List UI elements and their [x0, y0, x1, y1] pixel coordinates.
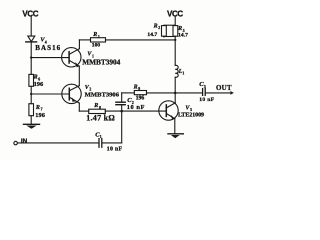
svg-text:VCC: VCC: [167, 9, 183, 18]
svg-text:VCC: VCC: [22, 9, 38, 18]
svg-text:10 nF: 10 nF: [107, 146, 123, 152]
svg-text:2: 2: [158, 26, 160, 30]
svg-text:8: 8: [99, 106, 101, 110]
svg-text:10 nF: 10 nF: [199, 97, 214, 103]
svg-text:IN: IN: [21, 138, 28, 145]
svg-text:1.47 kΩ: 1.47 kΩ: [86, 113, 115, 122]
svg-text:R: R: [92, 32, 97, 38]
svg-text:196: 196: [136, 95, 145, 101]
svg-text:MMBT3906: MMBT3906: [85, 91, 120, 98]
svg-text:7: 7: [41, 108, 43, 112]
svg-text:R: R: [35, 105, 40, 111]
svg-text:R: R: [153, 23, 158, 29]
svg-text:196: 196: [34, 81, 44, 88]
svg-text:R: R: [177, 26, 182, 32]
svg-text:3: 3: [204, 85, 206, 89]
svg-text:BAS16: BAS16: [35, 44, 61, 52]
svg-text:OUT: OUT: [216, 84, 232, 92]
svg-text:LTE21009: LTE21009: [178, 113, 204, 119]
svg-text:1: 1: [182, 72, 184, 76]
svg-text:1: 1: [100, 135, 102, 139]
svg-text:10 nF: 10 nF: [127, 104, 145, 111]
svg-text:MMBT3904: MMBT3904: [82, 58, 120, 67]
svg-text:R: R: [133, 84, 138, 90]
svg-text:1: 1: [98, 35, 100, 39]
svg-text:100: 100: [92, 42, 101, 48]
svg-text:14.7: 14.7: [178, 32, 188, 38]
svg-text:9: 9: [138, 87, 140, 91]
svg-text:196: 196: [35, 112, 45, 119]
svg-text:3: 3: [190, 108, 192, 112]
svg-text:R: R: [93, 103, 98, 109]
svg-text:R: R: [33, 75, 38, 81]
svg-text:14.7: 14.7: [147, 32, 157, 38]
